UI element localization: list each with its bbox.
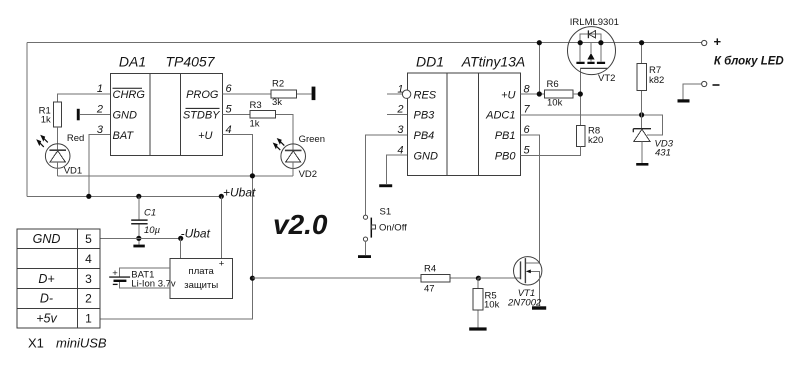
svg-text:1: 1 [85, 312, 92, 326]
svg-text:+: + [219, 258, 225, 269]
svg-text:6: 6 [524, 124, 531, 136]
switch S1 On/Off [363, 207, 407, 242]
wire LED row VD1 to VD2 [58, 175, 294, 177]
svg-text:k82: k82 [649, 75, 664, 86]
svg-text:IRLML9301: IRLML9301 [570, 17, 619, 28]
svg-text:VD2: VD2 [299, 169, 317, 180]
svg-text:+: + [112, 268, 118, 279]
wire +Ubat rail [27, 195, 222, 197]
node junction pin8 R6 [537, 91, 542, 96]
svg-text:7: 7 [524, 104, 531, 116]
svg-text:miniUSB: miniUSB [56, 336, 107, 351]
node junction VT2 drain [598, 40, 603, 45]
capacitor C1 [131, 196, 160, 244]
node junction R4 tap [250, 276, 255, 281]
svg-text:VD1: VD1 [64, 165, 82, 176]
svg-text:PROG: PROG [186, 89, 219, 101]
node junction C1 gnd wire [136, 236, 141, 241]
ground R5 [469, 327, 486, 330]
svg-text:+: + [714, 34, 722, 49]
svg-text:3: 3 [397, 124, 404, 136]
svg-text:k20: k20 [588, 135, 603, 146]
resistor R4 [421, 264, 450, 295]
svg-text:PB4: PB4 [414, 130, 435, 142]
svg-text:C1: C1 [144, 207, 156, 218]
ground C1 [133, 245, 144, 248]
LED VD2 [273, 134, 325, 180]
svg-text:D+: D+ [38, 272, 54, 286]
svg-text:1: 1 [397, 83, 403, 95]
svg-text:Green: Green [299, 134, 325, 145]
svg-text:-Ubat: -Ubat [181, 226, 211, 240]
ground DD1 [379, 184, 392, 187]
svg-text:BAT: BAT [113, 130, 135, 142]
wire DA1 pin4 +U vertical to +5v row [100, 135, 253, 319]
wire R4 row [252, 277, 478, 279]
svg-text:RES: RES [414, 89, 437, 101]
node junction R6 gate R8 [578, 91, 583, 96]
ground bar DA1 pin2 [77, 109, 80, 121]
svg-text:К блоку LED: К блоку LED [714, 55, 784, 67]
svg-text:R2: R2 [272, 78, 284, 89]
transistor VT2 IRLML9301 [568, 17, 619, 84]
node junction VT2 source [578, 40, 583, 45]
svg-text:2: 2 [396, 104, 403, 116]
svg-text:On/Off: On/Off [379, 223, 407, 234]
resistor R7 [637, 64, 664, 91]
wire DA1 pin5 to R3 [222, 114, 293, 150]
wire DA1 pin1 to R1 [58, 94, 111, 102]
svg-text:R6: R6 [547, 79, 559, 90]
svg-text:PB1: PB1 [495, 130, 516, 142]
wire VD1 bottom [57, 162, 59, 176]
svg-text:GND: GND [113, 110, 138, 122]
svg-text:v2.0: v2.0 [273, 209, 328, 240]
wire GND row X1 to plata [100, 237, 181, 239]
svg-text:+5v: +5v [36, 312, 57, 326]
svg-text:VT2: VT2 [598, 73, 615, 84]
resistor R3 [250, 100, 276, 129]
svg-text:STDBY: STDBY [183, 110, 220, 122]
wire DD1 pin3 to S1 [366, 135, 408, 215]
wire DD1 pin2 stub [387, 114, 407, 116]
wire DD1 pin7 ADC1 to VD3 ref [520, 115, 662, 135]
wire DA1 pin2 [80, 113, 111, 115]
svg-text:6: 6 [226, 83, 233, 95]
wire -Ubat to protection board [180, 238, 182, 258]
svg-text:CHRG: CHRG [113, 89, 146, 101]
wire R6 to VT2 gate and R8 [573, 68, 581, 125]
svg-text:плата: плата [189, 266, 215, 277]
svg-text:R3: R3 [250, 100, 262, 111]
IC DD1 ATtiny13A [396, 54, 530, 176]
LED VD1 [36, 133, 84, 177]
resistor R1 [39, 102, 62, 127]
svg-text:10k: 10k [547, 98, 563, 109]
node junction rail pin8 tap [537, 40, 542, 45]
svg-text:1k: 1k [250, 119, 260, 130]
svg-text:431: 431 [655, 148, 671, 159]
svg-text:Red: Red [67, 133, 84, 144]
connector X1 miniUSB [17, 229, 107, 351]
svg-text:+Ubat: +Ubat [223, 186, 256, 200]
svg-text:R4: R4 [424, 264, 436, 275]
svg-text:4: 4 [85, 252, 92, 266]
wire VT1 gate [478, 277, 520, 279]
wire top +supply rail [27, 42, 702, 44]
svg-text:Li-Ion 3.7v: Li-Ion 3.7v [131, 278, 176, 289]
svg-text:DA1: DA1 [119, 54, 146, 70]
wire +Ubat to protection board [220, 196, 222, 258]
wire DD1 pin4 GND [386, 155, 407, 184]
ground S1 [358, 255, 371, 258]
resistor R2 [271, 78, 297, 108]
svg-text:D-: D- [40, 292, 53, 306]
svg-text:S1: S1 [380, 207, 392, 218]
svg-text:2: 2 [96, 104, 103, 116]
wire S1 to ground [365, 241, 367, 255]
svg-text:+U: +U [198, 130, 212, 142]
ground VD3 [636, 163, 648, 166]
node junction R5 top [476, 276, 481, 281]
node junction rail end [219, 194, 224, 199]
resistor R8 [576, 126, 603, 147]
svg-text:GND: GND [414, 150, 439, 162]
wire DD1 pin8 to rail and R6 [520, 43, 544, 94]
svg-text:1k: 1k [41, 114, 51, 125]
node junction LED row [250, 173, 255, 178]
resistor R5 [473, 278, 500, 327]
svg-text:ADC1: ADC1 [485, 110, 515, 122]
node junction R7 bottom [639, 112, 644, 117]
wire R7 leads [641, 43, 643, 129]
svg-text:X1: X1 [28, 336, 44, 351]
node junction R7 rail [639, 40, 644, 45]
transistor VT1 2N7002 [507, 257, 542, 309]
svg-text:ATtiny13A: ATtiny13A [461, 54, 526, 70]
svg-text:1: 1 [97, 83, 103, 95]
wire R1 to VD1 [57, 127, 59, 150]
ground bar after R2 [312, 87, 316, 101]
svg-text:5: 5 [226, 104, 233, 116]
svg-text:5: 5 [524, 144, 531, 156]
svg-text:TP4057: TP4057 [165, 54, 215, 70]
svg-text:DD1: DD1 [416, 54, 444, 70]
protection board module [170, 258, 232, 298]
svg-text:4: 4 [226, 124, 232, 136]
svg-text:PB0: PB0 [495, 150, 517, 162]
wire DD1 pin1 stub [387, 93, 403, 95]
ground output [678, 99, 690, 102]
terminal + output [702, 34, 722, 49]
wire DA1 pin6 to R2 [222, 93, 311, 95]
svg-text:PB3: PB3 [414, 110, 436, 122]
svg-text:10µ: 10µ [144, 225, 161, 236]
svg-text:47: 47 [424, 283, 435, 294]
svg-text:3: 3 [85, 272, 92, 286]
svg-text:10k: 10k [484, 300, 500, 311]
wire DD1 pin6 to VT1 drain [520, 135, 539, 263]
svg-text:3: 3 [97, 124, 104, 136]
wire VD2 bottom [292, 162, 294, 176]
resistor R6 [545, 79, 573, 109]
node junction C1 rail [136, 194, 141, 199]
svg-text:2: 2 [85, 292, 92, 306]
svg-text:+U: +U [501, 89, 515, 101]
node junction BAT rail [86, 194, 91, 199]
ground VT1 source [532, 306, 546, 309]
svg-text:4: 4 [397, 144, 403, 156]
wire - terminal to ground [683, 84, 702, 99]
svg-text:защиты: защиты [184, 280, 218, 291]
terminal - output [702, 81, 720, 86]
wire left border vertical [26, 43, 28, 197]
IC DA1 TP4057 [96, 54, 233, 156]
svg-text:GND: GND [33, 232, 61, 246]
svg-text:3k: 3k [272, 97, 282, 108]
node junction -Ubat [178, 236, 183, 241]
svg-text:5: 5 [85, 232, 92, 246]
wire R8 to DD1 pin5 [520, 147, 580, 156]
wire DA1 pin3 BAT to rail [89, 135, 111, 197]
battery BAT1 [109, 268, 176, 290]
zener VD3 431 [633, 129, 673, 163]
